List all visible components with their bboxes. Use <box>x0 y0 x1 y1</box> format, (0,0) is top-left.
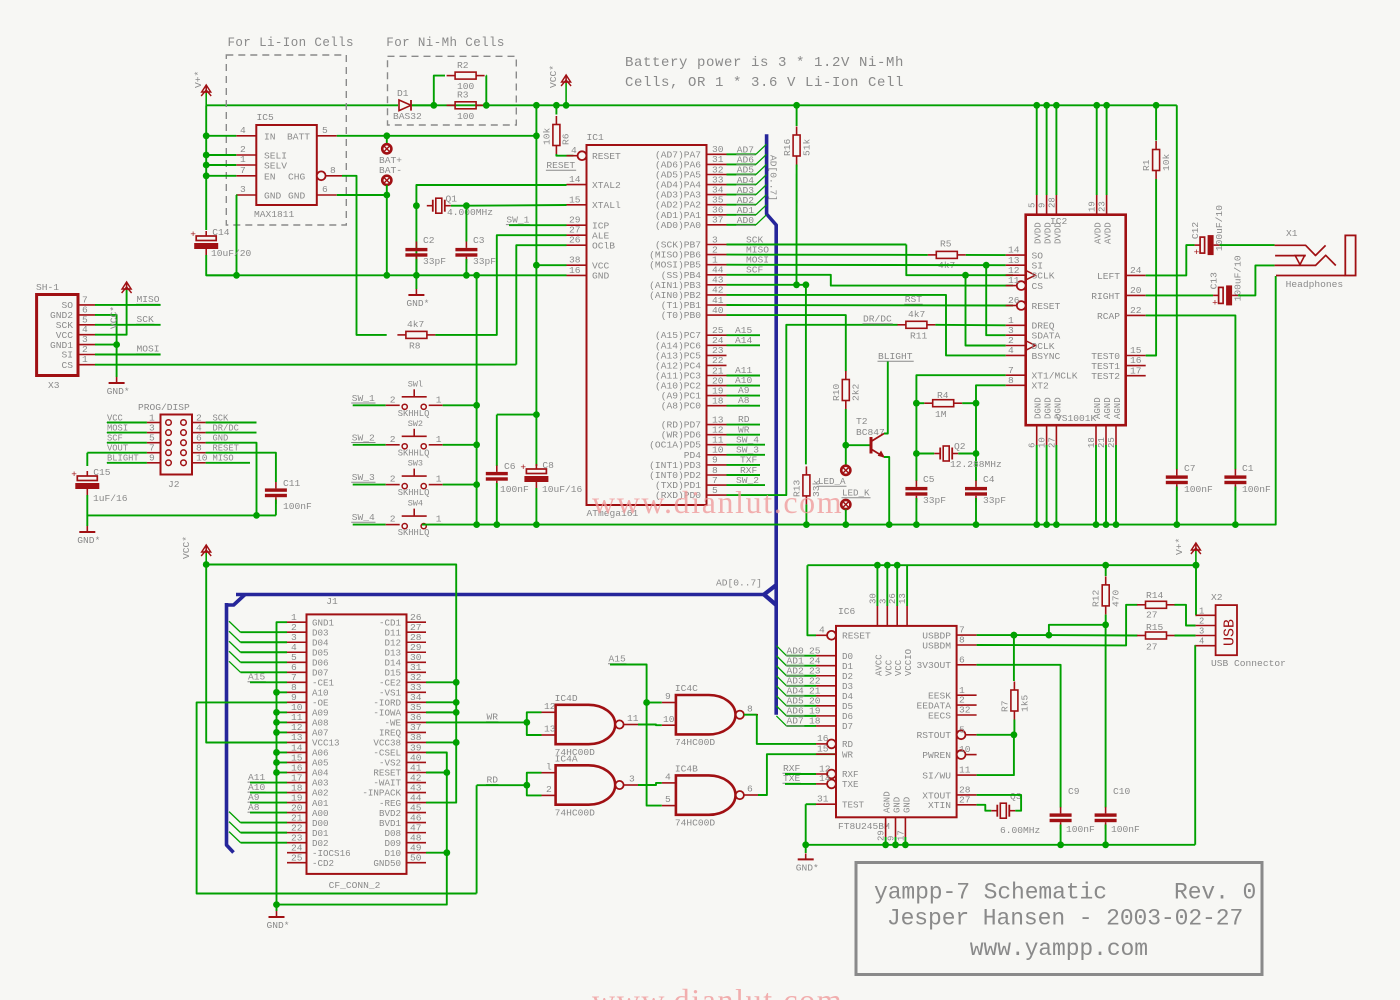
svg-text:-CD2: -CD2 <box>312 858 334 869</box>
svg-text:D7: D7 <box>842 721 853 732</box>
J2 pin 10 MISO <box>192 462 206 464</box>
svg-text:3: 3 <box>1199 627 1204 637</box>
J1 pin 9 -OE <box>287 701 307 703</box>
capacitor C2 33pF <box>415 242 417 248</box>
svg-text:IC6: IC6 <box>838 606 856 617</box>
IC4A 74HC00D gate <box>556 765 616 804</box>
ground symbol below C2 <box>415 275 417 289</box>
svg-text:BAS32: BAS32 <box>393 111 422 122</box>
IC2 pin 7 XT1/MCLK <box>1006 374 1026 376</box>
svg-text:1: 1 <box>436 474 442 485</box>
svg-text:11: 11 <box>627 713 639 724</box>
svg-text:SW_2: SW_2 <box>352 432 375 443</box>
wire IC4A out to IC4B in <box>638 783 662 785</box>
wire OC1B long to X3 CS <box>516 245 566 364</box>
IC1 pin 31 (AD6)PA6 <box>707 163 727 165</box>
IC6 pin 6 3V3OUT <box>957 664 977 666</box>
J1 pin 25 -CD2 <box>287 862 307 864</box>
svg-text:DGND: DGND <box>1053 397 1063 419</box>
wire X3 CS long to OC1B <box>95 364 516 366</box>
IC1 pin 23 (A13)PC5 <box>707 354 727 356</box>
IC2 pin 1 DREQ <box>1006 324 1026 326</box>
svg-text:LED_K: LED_K <box>842 488 870 499</box>
svg-text:R12: R12 <box>1091 589 1102 607</box>
svg-text:8: 8 <box>1008 375 1014 386</box>
ground symbol IC6 TEST <box>805 853 807 859</box>
ground rail lower right <box>806 844 1195 846</box>
svg-text:CF_CONN_2: CF_CONN_2 <box>329 880 381 891</box>
svg-text:4: 4 <box>1008 345 1014 356</box>
IC2 pin 14 SO <box>1006 254 1026 256</box>
svg-text:2: 2 <box>390 514 396 525</box>
J1 pin 15 A05 <box>287 761 307 763</box>
IC1 pin 11 (OC1A)PD5 <box>707 444 727 446</box>
svg-text:IC4C: IC4C <box>675 683 698 694</box>
svg-text:C13: C13 <box>1209 272 1220 290</box>
svg-text:R6: R6 <box>561 133 572 145</box>
svg-text:74HC00D: 74HC00D <box>555 807 596 818</box>
wire BATT net to right <box>337 135 537 137</box>
svg-text:SW4: SW4 <box>408 499 423 509</box>
svg-text:(T0)PB0: (T0)PB0 <box>661 310 702 321</box>
svg-text:3: 3 <box>629 774 635 785</box>
IC2 top DVDD/AVDD pins <box>1036 195 1038 215</box>
wire LEFT to C12 <box>1146 245 1195 275</box>
IC2 pin 2 DCLK <box>1006 345 1026 347</box>
svg-text:EECS: EECS <box>928 710 951 721</box>
J1 pin 45 BVD2 <box>407 812 427 814</box>
svg-text:A15: A15 <box>609 654 627 665</box>
svg-text:R11: R11 <box>910 331 928 342</box>
svg-text:R8: R8 <box>409 341 421 352</box>
J1 pin 47 D08 <box>407 832 427 834</box>
svg-text:10: 10 <box>663 714 675 725</box>
wire RXD PD0 to DR/DC <box>727 325 898 495</box>
svg-text:USBDM: USBDM <box>922 640 951 651</box>
svg-text:www.dianlut.com: www.dianlut.com <box>592 484 843 520</box>
svg-text:1M: 1M <box>935 409 947 420</box>
IC1 pin 7 (TXD)PD1 <box>707 484 727 486</box>
svg-text:R5: R5 <box>940 239 952 250</box>
J1 pin 50 GND50 <box>407 862 427 864</box>
IC6 pin 18 D7 from bus AD7 <box>816 725 836 727</box>
node BATT junction <box>383 132 390 139</box>
svg-text:www.yampp.com: www.yampp.com <box>970 936 1148 962</box>
svg-text:C3: C3 <box>473 235 485 246</box>
svg-text:12: 12 <box>544 701 556 712</box>
resistor R14 27 <box>1146 601 1167 608</box>
svg-text:SH-1: SH-1 <box>36 282 59 293</box>
resistor R12 470 <box>1102 562 1109 569</box>
svg-text:12.288MHz: 12.288MHz <box>950 459 1002 470</box>
svg-text:AGND: AGND <box>1093 397 1103 419</box>
svg-text:GND*: GND* <box>77 535 100 546</box>
IC2 pin 8 XT2 <box>1006 384 1026 386</box>
IC1 pin 37 (AD0)PA0 <box>707 224 727 226</box>
resistor R16 51k <box>793 102 800 109</box>
svg-text:X2: X2 <box>1211 592 1223 603</box>
svg-text:CHG: CHG <box>288 172 306 183</box>
svg-text:VCC: VCC <box>884 659 894 676</box>
IC1 pin 10 PD4 <box>707 454 727 456</box>
IC6 pin 11 SI/WU <box>957 774 977 776</box>
IC1 pin 27 ALE <box>567 234 587 236</box>
svg-text:X1: X1 <box>1286 228 1298 239</box>
pad BAT- <box>382 176 391 185</box>
J1 pin 21 D00 <box>287 822 307 824</box>
svg-text:SKHHLQ: SKHHLQ <box>398 448 430 458</box>
svg-text:31: 31 <box>817 794 829 805</box>
wire X3 GND1 <box>95 344 117 346</box>
svg-text:IC4D: IC4D <box>555 693 578 704</box>
svg-text:9: 9 <box>1038 203 1048 208</box>
IC2 pin 22 RCAP <box>1126 314 1146 316</box>
IC1 pin 34 (AD3)PA3 <box>707 194 727 196</box>
svg-text:2: 2 <box>390 394 396 405</box>
IC6 pin 15 WR <box>816 753 836 755</box>
svg-text:WR: WR <box>842 749 854 760</box>
wire IC4D out to IC4C in <box>638 724 662 727</box>
IC1 pin 43 (AIN1)PB3 <box>707 284 727 286</box>
node junction right of R2/R3 <box>483 102 490 109</box>
svg-text:26: 26 <box>569 235 581 246</box>
svg-text:27: 27 <box>1146 642 1158 653</box>
J2 pin 4 DR/DC <box>192 432 206 434</box>
svg-text:Cells, OR 1 * 3.6 V Li-Ion Cel: Cells, OR 1 * 3.6 V Li-Ion Cell <box>625 75 904 91</box>
svg-text:SWl: SWl <box>408 379 423 389</box>
IC2 bottom AGND pins <box>1095 425 1097 445</box>
wire AD2 to bus <box>727 204 756 206</box>
IC1 pin 33 (AD4)PA4 <box>707 184 727 186</box>
svg-text:BATT: BATT <box>287 132 310 143</box>
svg-text:14: 14 <box>819 773 831 784</box>
svg-text:J2: J2 <box>168 479 180 490</box>
svg-text:RD: RD <box>487 774 499 785</box>
svg-text:XTIN: XTIN <box>928 800 951 811</box>
svg-text:19: 19 <box>1088 201 1098 212</box>
ground symbol C15 <box>86 515 88 526</box>
svg-text:BSYNC: BSYNC <box>1032 351 1061 362</box>
J1 pin 18 A02 <box>287 792 307 794</box>
J1 pin 40 -VS2 <box>407 761 427 763</box>
wire PB2 to BSYNC <box>727 295 1006 356</box>
svg-text:SKHHLQ: SKHHLQ <box>398 409 430 419</box>
svg-text:For Ni-Mh Cells: For Ni-Mh Cells <box>386 36 505 50</box>
svg-text:TEST: TEST <box>842 799 865 810</box>
svg-text:SELV: SELV <box>264 161 287 172</box>
J1 pin 13 VCC13 <box>287 741 307 743</box>
X2 USB connector <box>1216 605 1237 655</box>
svg-text:100nF: 100nF <box>1242 484 1271 495</box>
IC6 pin 14 TXE <box>827 780 836 789</box>
capacitor C9 100nF <box>1060 807 1062 813</box>
IC5 pin 8 CHG with bubble <box>317 171 326 180</box>
IC1 pin 18 (A8)PC0 <box>707 405 727 407</box>
IC1 pin 40 (T0)PB0 <box>707 314 727 316</box>
wire R14 to X2 pin2 <box>1175 605 1196 626</box>
wire R11 to DREQ <box>935 324 1005 327</box>
IC1 pin 42 (AIN0)PB2 <box>707 294 727 296</box>
svg-text:www.dianlut.com: www.dianlut.com <box>592 982 843 1000</box>
IC6 pin 12 RXF <box>827 770 836 779</box>
svg-text:4k7: 4k7 <box>908 309 925 320</box>
VCC rail to J1 pullup column <box>206 565 456 803</box>
svg-text:1uF/16: 1uF/16 <box>93 493 128 504</box>
wire USBDP <box>977 634 1049 636</box>
svg-text:5: 5 <box>1028 203 1038 208</box>
wire RIGHT to C13 <box>1146 294 1213 296</box>
svg-text:74HC00D: 74HC00D <box>675 817 716 828</box>
ground rail upper <box>206 274 566 276</box>
wire R1 to TEST0 <box>1146 179 1156 356</box>
svg-text:Q3: Q3 <box>1010 791 1022 802</box>
svg-text:GND: GND <box>902 797 912 813</box>
svg-text:Jesper Hansen - 2003-02-27: Jesper Hansen - 2003-02-27 <box>887 906 1243 932</box>
svg-text:TXE: TXE <box>842 779 859 790</box>
svg-text:C12: C12 <box>1190 222 1201 240</box>
J1 pin 26 -CD1 <box>407 621 427 623</box>
svg-text:SW_3: SW_3 <box>352 472 375 483</box>
svg-text:23: 23 <box>1098 201 1108 212</box>
wire R16 down to PB3 node <box>796 165 798 285</box>
wire X2 pin4 to gnd rail <box>1194 646 1196 845</box>
crystal Q2 12.288MHz circuit <box>916 375 1005 481</box>
J1 pin 6 D07 <box>287 671 307 673</box>
wire J1 GND1 down to tie column <box>277 622 288 692</box>
svg-text:(A8)PC0: (A8)PC0 <box>661 401 702 412</box>
svg-text:R7: R7 <box>999 700 1010 712</box>
svg-text:RESET: RESET <box>1032 301 1061 312</box>
J1 pin 34 -IORD <box>407 701 427 703</box>
wire SI/WU to USBDP node <box>977 735 1014 775</box>
svg-text:15: 15 <box>569 194 581 205</box>
IC1 pin 36 (AD1)PA1 <box>707 214 727 216</box>
wire BLIGHT stub <box>107 462 147 464</box>
svg-text:SW_1: SW_1 <box>352 393 375 404</box>
J1 pin 14 A06 <box>287 751 307 753</box>
svg-text:DGND: DGND <box>1034 397 1044 419</box>
resistor R1 10k <box>1153 102 1160 109</box>
svg-text:3V3OUT: 3V3OUT <box>916 660 951 671</box>
ground symbol below J1 <box>273 901 280 908</box>
svg-text:7: 7 <box>240 165 246 176</box>
wire J1 -CSEL RESET GND50 to gnd column <box>277 753 447 905</box>
wire R8 right to ALE column <box>435 235 566 335</box>
svg-text:SCLK: SCLK <box>1032 271 1055 282</box>
svg-text:LEFT: LEFT <box>1097 271 1120 282</box>
svg-text:20: 20 <box>1130 285 1142 296</box>
svg-text:C11: C11 <box>283 478 301 489</box>
svg-text:15: 15 <box>817 744 829 755</box>
svg-text:IC4A: IC4A <box>555 753 578 764</box>
dashed box For Ni-Mh Cells <box>388 56 517 125</box>
svg-text:R16: R16 <box>782 138 793 156</box>
X3 pin 5 SCK <box>78 324 95 326</box>
svg-text:C1: C1 <box>1242 463 1254 474</box>
IC1 pin 30 (AD7)PA7 <box>707 153 727 155</box>
svg-text:1: 1 <box>82 354 88 365</box>
X3 SH-1 connector box <box>37 295 78 376</box>
svg-text:2: 2 <box>546 784 552 795</box>
IC1 pin 1 (MOSI)PB5 <box>707 264 727 266</box>
wire T2 emitter to gnd <box>884 457 889 525</box>
IC6 pin 32 EECS <box>957 714 977 716</box>
IC1 pin 32 (AD5)PA5 <box>707 174 727 176</box>
svg-text:33pF: 33pF <box>923 495 946 506</box>
svg-text:Battery power is 3 * 1.2V Ni-M: Battery power is 3 * 1.2V Ni-Mh <box>625 55 904 71</box>
svg-text:C9: C9 <box>1068 786 1080 797</box>
svg-text:RST: RST <box>905 294 923 305</box>
wire AD4 to bus <box>727 184 756 186</box>
svg-text:74HC00D: 74HC00D <box>675 737 716 748</box>
IC1 pin 41 (T1)PB1 <box>707 304 727 306</box>
svg-text:yampp-7 Schematic: yampp-7 Schematic <box>874 879 1107 905</box>
svg-text:10: 10 <box>959 744 971 755</box>
svg-text:R1: R1 <box>1141 159 1152 171</box>
wire SCK down to SCLK <box>906 245 1013 276</box>
svg-text:18: 18 <box>712 396 724 407</box>
IC6 bottom gnd pins <box>885 817 887 837</box>
IC6 pin 31 TEST <box>816 803 836 805</box>
pad LED_A <box>845 445 847 465</box>
svg-text:BAT-: BAT- <box>379 165 402 176</box>
wire CHG to R8 column <box>342 176 387 335</box>
node GND6 junction <box>383 192 390 199</box>
svg-text:2: 2 <box>390 474 396 485</box>
J1 pin 44 -REG <box>407 802 427 804</box>
J1 pin 31 D15 <box>407 671 427 673</box>
svg-text:SKHHLQ: SKHHLQ <box>398 488 430 498</box>
svg-text:24: 24 <box>1130 265 1142 276</box>
svg-text:1: 1 <box>436 514 442 525</box>
svg-text:2: 2 <box>1199 617 1204 627</box>
J1 pin 5 D06 <box>287 661 307 663</box>
svg-text:RD: RD <box>842 739 854 750</box>
switch common column <box>443 404 477 406</box>
svg-text:GND: GND <box>288 191 306 202</box>
bus fanout to J1 data D03-D07 <box>229 621 241 632</box>
svg-text:IC5: IC5 <box>257 112 275 123</box>
wire V+ to IC6 RESET <box>807 565 816 635</box>
svg-text:USB Connector: USB Connector <box>1211 658 1286 669</box>
svg-text:18: 18 <box>809 716 821 727</box>
IC2 pin 17 TEST2 <box>1126 375 1146 377</box>
svg-text:R4: R4 <box>937 390 949 401</box>
svg-text:4: 4 <box>819 625 825 636</box>
bus AD[0..7] vertical at IC1 <box>767 134 777 714</box>
wire USBDP on to R15 <box>1049 634 1138 636</box>
IC2 pin 20 RIGHT <box>1126 294 1146 296</box>
svg-text:C2: C2 <box>423 235 435 246</box>
IC6 pin 2 EEDATA <box>957 704 977 706</box>
IC1 pin 20 (A10)PC2 <box>707 385 727 387</box>
svg-text:C5: C5 <box>923 474 935 485</box>
svg-text:DVDD: DVDD <box>1053 222 1063 244</box>
J2 pin 8 RESET <box>192 452 206 454</box>
svg-text:GND: GND <box>264 191 282 202</box>
bus fanout to J1 data D00-D02 <box>229 812 241 823</box>
IC1 pin 8 (INT0)PD2 <box>707 474 727 476</box>
svg-text:J1: J1 <box>326 596 338 607</box>
svg-text:PWREN: PWREN <box>922 750 951 761</box>
svg-text:37: 37 <box>712 215 724 226</box>
svg-text:+: + <box>520 462 526 473</box>
J1 pin 32 -CE2 <box>407 681 427 683</box>
svg-text:100: 100 <box>457 111 475 122</box>
svg-text:51k: 51k <box>802 138 813 156</box>
address tie column to gnd <box>277 691 288 693</box>
svg-text:6: 6 <box>959 654 965 665</box>
wire C15 gnd <box>87 495 276 515</box>
IC5 pin 4 IN <box>236 135 256 137</box>
svg-text:16: 16 <box>817 733 829 744</box>
svg-text:Q2: Q2 <box>954 441 966 452</box>
node junction left of R2/R3 <box>430 102 437 109</box>
J1 pin 16 A04 <box>287 772 307 774</box>
IC6 pin 1 EESK <box>957 694 977 696</box>
svg-text:2k2: 2k2 <box>851 383 862 401</box>
svg-text:SI/WU: SI/WU <box>922 771 951 782</box>
IC6 FT8U245BM box <box>836 626 957 817</box>
svg-text:10uF/20: 10uF/20 <box>211 248 252 259</box>
IC2 pin 13 SI <box>1006 264 1026 266</box>
svg-text:AD7: AD7 <box>787 716 804 727</box>
IC6 top power pins <box>876 606 878 626</box>
wire AD6 to bus <box>727 163 756 165</box>
svg-text:For Li-Ion Cells: For Li-Ion Cells <box>228 36 354 50</box>
IC2 pin 26 RESET <box>1017 301 1026 310</box>
svg-text:5: 5 <box>665 794 671 805</box>
IC2 pin 16 TEST1 <box>1126 365 1146 367</box>
svg-text:RESET: RESET <box>842 631 871 642</box>
resistor R7 1k5 <box>1011 632 1018 639</box>
svg-text:32: 32 <box>959 705 971 716</box>
wire R6 to RESET pin <box>556 154 573 156</box>
svg-text:RD: RD <box>738 414 750 425</box>
IC2 pin 11 CS <box>1017 281 1026 290</box>
wire AD0 to bus <box>727 224 756 226</box>
svg-text:GND: GND <box>893 797 903 813</box>
svg-text:R10: R10 <box>831 383 842 401</box>
J1 pin 30 D14 <box>407 661 427 663</box>
IC1 pin 44 (SS)PB4 <box>707 274 727 276</box>
svg-text:RCAP: RCAP <box>1097 311 1120 322</box>
IC1 ATmega161 box <box>587 145 707 505</box>
svg-text:+: + <box>71 469 77 480</box>
ground symbol X3 <box>116 377 118 383</box>
svg-text:IC4B: IC4B <box>675 763 698 774</box>
svg-text:6.00MHz: 6.00MHz <box>1000 825 1040 836</box>
wire R2 right down to node <box>485 76 487 106</box>
IC1 pin 22 (A12)PC4 <box>707 364 727 366</box>
resistor R15 27 <box>1146 632 1167 639</box>
power rail V+ lower <box>807 564 1196 566</box>
wire VCC column <box>535 105 537 414</box>
svg-text:V+*: V+* <box>193 71 204 88</box>
wire IC5 GND3 down to gnd rail <box>235 195 237 275</box>
IC5 pin 1 SELV <box>236 164 256 166</box>
wire VCC13 from VCC column <box>206 565 287 743</box>
wire X3 VCC up arrow <box>95 287 127 335</box>
wire J2 GND down <box>206 443 257 516</box>
crystal Q2 symbol <box>934 453 940 455</box>
svg-text:AVDD: AVDD <box>1094 222 1104 244</box>
X3 pin 4 VCC <box>78 334 95 336</box>
J1 CF_CONN_2 box <box>307 614 407 874</box>
svg-text:100nF: 100nF <box>283 501 312 512</box>
svg-text:XTALl: XTALl <box>592 200 621 211</box>
svg-text:4: 4 <box>665 772 671 783</box>
